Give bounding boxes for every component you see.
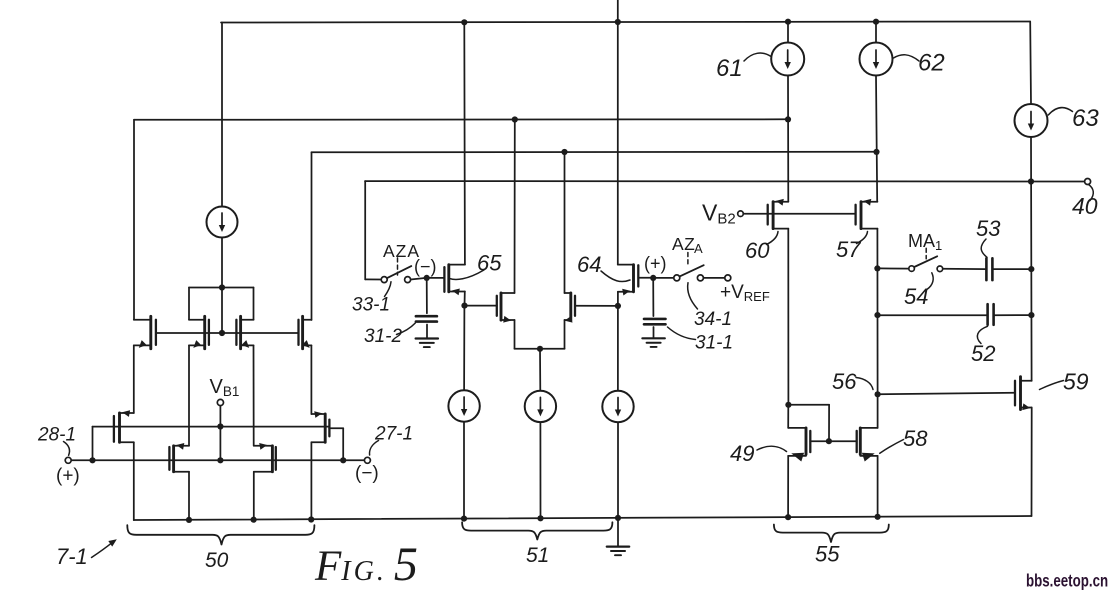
svg-text:64: 64 — [577, 252, 601, 277]
svg-text:40: 40 — [1072, 193, 1098, 219]
svg-text:A: A — [694, 241, 703, 256]
svg-text:31-1: 31-1 — [695, 333, 733, 354]
svg-text:55: 55 — [815, 542, 840, 567]
svg-text:28-1: 28-1 — [37, 425, 76, 446]
svg-text:(+): (+) — [56, 466, 80, 487]
svg-text:50: 50 — [205, 549, 229, 572]
svg-text:AZ: AZ — [672, 234, 695, 254]
svg-text:34-1: 34-1 — [694, 309, 732, 330]
svg-text:(+): (+) — [644, 254, 667, 274]
svg-text:(−): (−) — [414, 257, 437, 277]
svg-text:52: 52 — [971, 341, 995, 366]
svg-text:54: 54 — [904, 284, 928, 309]
svg-text:53: 53 — [976, 216, 1001, 241]
svg-text:60: 60 — [745, 238, 770, 263]
svg-text:59: 59 — [1063, 369, 1089, 395]
svg-text:63: 63 — [1072, 105, 1099, 132]
svg-text:bbs.eetop.cn: bbs.eetop.cn — [1026, 572, 1108, 591]
svg-text:33-1: 33-1 — [352, 295, 390, 316]
svg-text:62: 62 — [918, 50, 945, 77]
svg-text:57: 57 — [836, 237, 861, 262]
svg-text:56: 56 — [832, 369, 857, 394]
svg-text:58: 58 — [903, 426, 928, 451]
svg-text:49: 49 — [730, 441, 754, 466]
svg-text:65: 65 — [477, 251, 502, 276]
svg-text:51: 51 — [526, 544, 549, 567]
svg-text:7-1: 7-1 — [56, 544, 88, 569]
svg-text:(−): (−) — [355, 463, 379, 484]
svg-text:27-1: 27-1 — [374, 424, 413, 445]
svg-text:61: 61 — [716, 55, 743, 82]
svg-text:31-2: 31-2 — [364, 326, 402, 347]
